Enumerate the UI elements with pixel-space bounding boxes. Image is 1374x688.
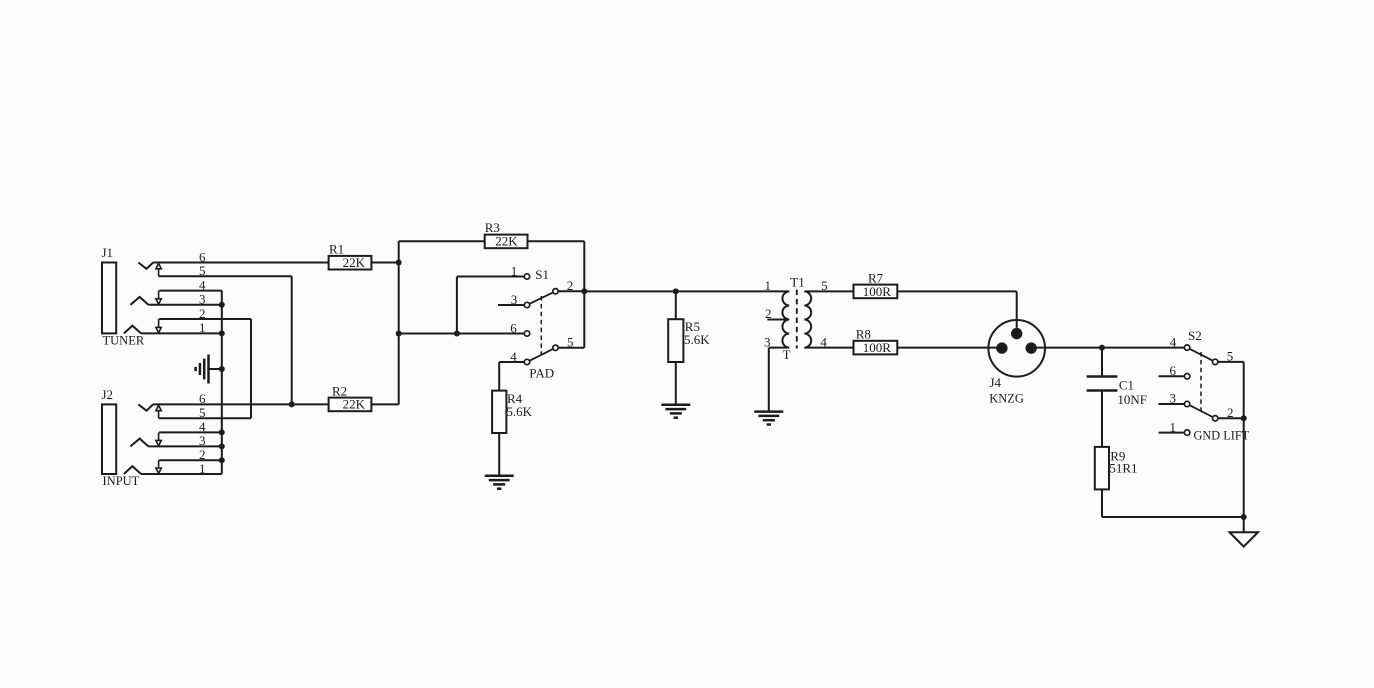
svg-text:3: 3 (1170, 391, 1177, 406)
J2 ring contact pins 4/3 (130, 439, 148, 447)
svg-text:J1: J1 (102, 245, 114, 260)
svg-text:5.6K: 5.6K (684, 332, 710, 347)
wire J1 pin 5 (159, 275, 292, 277)
J1 tip contact (138, 263, 153, 269)
svg-text:C1: C1 (1119, 377, 1134, 392)
wire bottom (1102, 516, 1244, 518)
transformer T1 core (796, 290, 798, 349)
junction R5 tap (673, 288, 679, 294)
svg-text:1: 1 (511, 263, 518, 278)
wire R5 to ground (675, 362, 677, 405)
J1 sleeve contact pins 2/1 (124, 326, 141, 334)
S1 lever 4-5 (530, 349, 553, 361)
svg-text:6: 6 (1170, 363, 1177, 378)
svg-text:T: T (783, 347, 791, 362)
wire R2 output (371, 403, 398, 405)
S2 lever 4-5 (1190, 349, 1213, 361)
junction S1 feed (396, 331, 402, 337)
svg-text:51R1: 51R1 (1109, 461, 1137, 476)
wire to C1 (1101, 348, 1103, 377)
wire S1 pin 4 to R4 (499, 362, 524, 391)
wire J1 pin 4 to bus (159, 290, 222, 292)
wire T1 pin 4 to R8 (804, 347, 853, 349)
S1 dashed link (540, 296, 542, 355)
wire J2 pin 3 to bus (148, 445, 222, 447)
svg-text:100R: 100R (863, 340, 892, 355)
wire R9 down (1101, 489, 1103, 517)
junction R2 input (289, 401, 295, 407)
wire J2 pin 6 to R2 (153, 403, 329, 405)
wire right vertical to chassis (1243, 362, 1245, 532)
svg-text:10NF: 10NF (1117, 392, 1147, 407)
J1 ring contact pins 4/3 (130, 297, 148, 305)
junction J1 bus (219, 302, 225, 308)
wire R4 to ground (498, 433, 500, 476)
svg-text:INPUT: INPUT (103, 474, 140, 488)
svg-text:S2: S2 (1188, 328, 1202, 343)
svg-text:T1: T1 (790, 275, 804, 290)
ground GND under T1 (754, 412, 783, 425)
junction ground tap (219, 366, 225, 372)
J2 switch arrow pins 2/1 (158, 460, 160, 468)
transformer T1 primary winding (782, 291, 789, 347)
svg-text:22K: 22K (495, 234, 518, 249)
J2 sleeve contact pins 2/1 (124, 466, 141, 474)
wire main line to T1 (584, 290, 789, 292)
connector J2 body (102, 404, 116, 474)
junction C1 tap (1099, 345, 1105, 351)
J4 pin 2 contact (1011, 328, 1022, 339)
junction R1 output (396, 260, 402, 266)
wire T1 pin 2 tap (767, 319, 789, 321)
wire T1 pin 5 to R7 (804, 290, 853, 292)
junction S1 feed split (454, 331, 460, 337)
junction J1 bus (219, 330, 225, 336)
switch S1 (524, 274, 558, 365)
wire J2 pin 4 to bus (159, 431, 222, 433)
S2 pin 3 stub (1159, 403, 1185, 405)
junction S1 output (581, 288, 587, 294)
S1 pin 3 stub (498, 304, 524, 306)
capacitor C1 (1087, 377, 1118, 391)
ground GND under R4 (485, 476, 514, 489)
wire R3 output (528, 240, 585, 242)
svg-text:3: 3 (511, 292, 518, 307)
svg-text:J2: J2 (102, 387, 114, 402)
wire C1 to R9 (1101, 391, 1103, 447)
svg-text:1: 1 (765, 278, 772, 293)
svg-text:KNZG: KNZG (989, 392, 1024, 406)
wire to R3 (399, 240, 485, 242)
wire J1 pin 1 to bus (141, 332, 222, 334)
wire to R5 (675, 291, 677, 319)
junction J2 bus (219, 443, 225, 449)
svg-text:S1: S1 (535, 267, 549, 282)
junction J2 bus (219, 429, 225, 435)
resistor R1 (329, 256, 372, 270)
switch S2 (1184, 345, 1218, 435)
wire J4 pin 1 to S2 (1031, 347, 1184, 349)
wire S2 pin 2 output (1218, 417, 1244, 419)
ground GND1 (jack sleeve) (196, 355, 209, 384)
resistor R4 (492, 391, 506, 433)
resistor R8 (854, 341, 898, 355)
wire S1 pin 5 output (559, 291, 585, 348)
connector J4 XLR body (988, 320, 1045, 377)
J1 switch arrow pins 2/1 (158, 319, 160, 327)
S2 dashed link (1200, 352, 1202, 414)
svg-text:GND LIFT: GND LIFT (1194, 428, 1250, 442)
wire R1 output (371, 262, 398, 264)
wire S1 feed horizontal (399, 333, 524, 335)
junction bottom (1241, 514, 1247, 520)
wire J1 pin 2 down to J2 pin 5 (250, 319, 252, 418)
svg-text:5.6K: 5.6K (506, 404, 532, 419)
resistor R2 (329, 398, 372, 412)
svg-text:22K: 22K (343, 397, 366, 412)
wire J2 pin 5 (159, 417, 251, 419)
transformer T1 secondary winding (804, 291, 811, 347)
wire S2 pin 5 output (1218, 361, 1244, 363)
resistor R3 (485, 235, 528, 249)
wire S1 pin 1 feed (457, 277, 524, 334)
resistor R5 (668, 319, 683, 362)
ground tap wire (209, 368, 222, 370)
J2 tip contact (138, 404, 153, 410)
J4 pin 3 contact (996, 342, 1007, 353)
wire T1 pin 3 (769, 348, 789, 412)
svg-text:TUNER: TUNER (103, 334, 145, 348)
wire R3 output down (583, 241, 585, 291)
wire J2 pin 2 (159, 459, 222, 461)
J1 switch arrow pins 6/5 (158, 269, 160, 276)
svg-text:100R: 100R (863, 284, 892, 299)
wire R7 to J4 pin 2 (897, 291, 1016, 333)
connector J1 body (102, 263, 116, 334)
wire R8 to J4 pin 3 (897, 347, 1002, 349)
wire J2 pin 1 to bus (141, 473, 222, 475)
wire S1 pin 2 output (559, 290, 585, 292)
wire ground bus vertical (221, 291, 223, 474)
wire vertical R1/R2/R3 node (398, 241, 400, 404)
wire J1 pin 3 to bus (148, 304, 222, 306)
wire J1 pin 5 down (291, 276, 293, 404)
svg-text:PAD: PAD (529, 365, 554, 380)
S2 pin 1 stub (1159, 432, 1185, 434)
svg-text:22K: 22K (343, 255, 366, 270)
svg-text:4: 4 (1170, 334, 1177, 349)
svg-text:6: 6 (510, 320, 517, 335)
junction J2 bus (219, 457, 225, 463)
S2 pin 6 stub (1159, 375, 1185, 377)
J2 switch arrow pins 6/5 (158, 411, 160, 418)
S2 lever 3-2 (1190, 405, 1213, 417)
J2 switch arrow pins 4/3 (158, 432, 160, 440)
chassis ground (1230, 532, 1259, 546)
S1 lever 3-2 (530, 293, 553, 304)
resistor R9 (1095, 447, 1109, 490)
junction S2 pin 2 (1241, 415, 1247, 421)
svg-text:1: 1 (1170, 419, 1177, 434)
J4 pin 1 contact (1026, 342, 1037, 353)
ground GND under R5 (661, 405, 690, 418)
svg-text:J4: J4 (990, 375, 1002, 390)
wire J1 pin 2 (159, 318, 251, 320)
wire J1 pin 6 to R1 (153, 262, 329, 264)
J1 switch arrow pins 4/3 (158, 291, 160, 299)
resistor R7 (854, 285, 898, 299)
